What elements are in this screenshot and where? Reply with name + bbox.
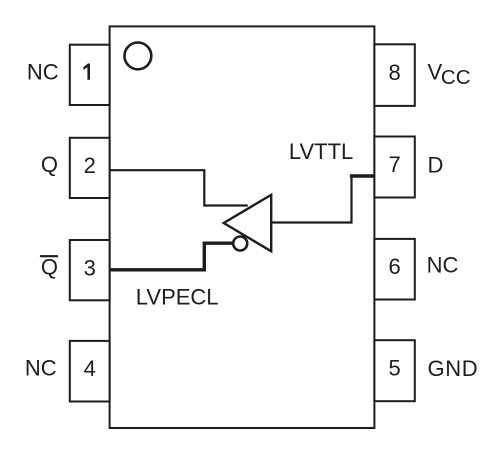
svg-text:5: 5 (388, 356, 400, 381)
svg-text:LVPECL: LVPECL (136, 284, 219, 309)
svg-text:LVTTL: LVTTL (289, 139, 353, 164)
svg-text:Q: Q (41, 152, 58, 177)
pin 6 (374, 239, 414, 300)
wire Qbar output LVPECL (pin 3 to inversion bubble) (110, 243, 233, 270)
pin 3 (70, 240, 110, 300)
svg-text:NC: NC (27, 60, 59, 85)
svg-text:7: 7 (388, 152, 400, 177)
wire D input bold segment at pin 7 (350, 174, 375, 178)
pin-1 indicator (124, 43, 151, 70)
wire Q output (pin 2 to gate top edge) (110, 170, 248, 205)
pin 2 (70, 138, 110, 198)
wire D input (gate input toward pin 7) (271, 178, 351, 223)
translator gate U1a (left-pointing triangle) (224, 195, 272, 252)
svg-text:2: 2 (84, 153, 96, 178)
pin 1 (70, 45, 110, 105)
svg-text:GND: GND (428, 356, 479, 381)
pin 4 (70, 341, 110, 402)
svg-text:6: 6 (388, 254, 400, 279)
svg-text:NC: NC (427, 253, 459, 278)
pin 5 (374, 340, 414, 401)
svg-text:8: 8 (388, 60, 400, 85)
svg-text:CC: CC (441, 66, 471, 89)
label VCC (pin 8) (428, 60, 471, 89)
pin 8 (374, 44, 414, 106)
svg-text:Q: Q (41, 254, 58, 279)
label Qbar (pin 3) (40, 254, 58, 279)
svg-text:4: 4 (84, 356, 96, 381)
pin 7 (374, 137, 414, 198)
svg-text:NC: NC (25, 356, 57, 381)
inversion bubble on Qbar output (233, 237, 247, 251)
svg-text:3: 3 (84, 255, 96, 280)
svg-text:D: D (428, 152, 444, 177)
IC body U1 (110, 26, 375, 428)
